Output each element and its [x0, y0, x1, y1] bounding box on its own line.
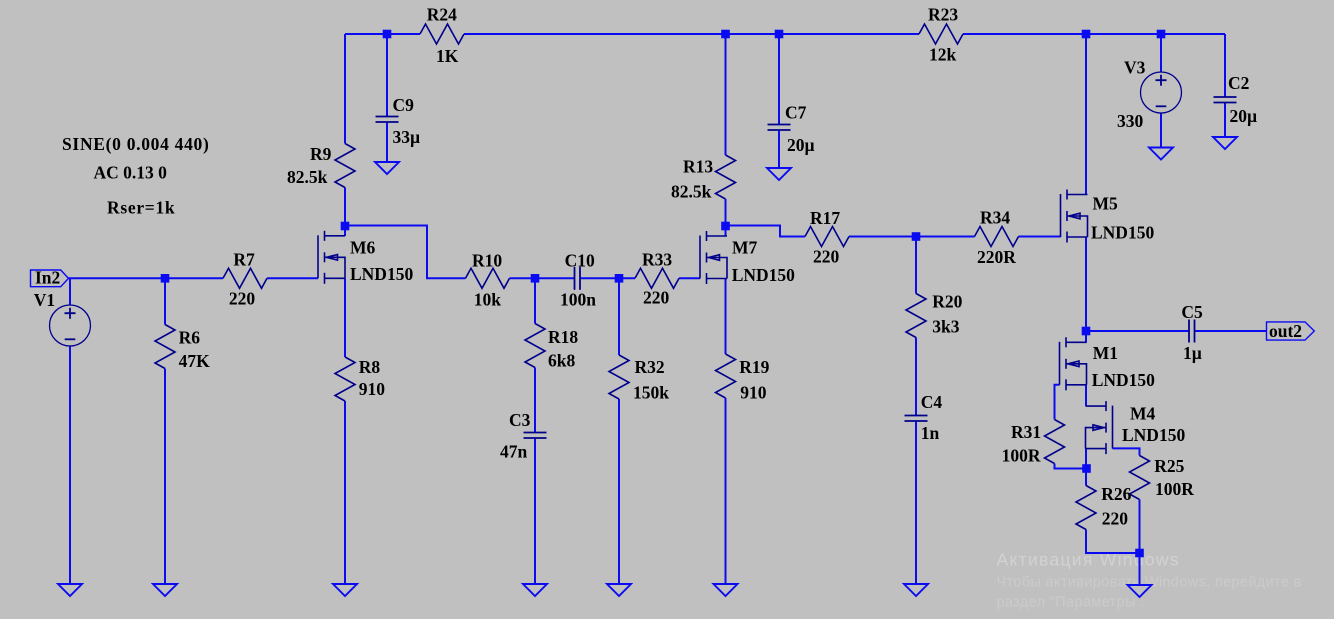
svg-text:R19: R19	[739, 357, 769, 377]
svg-text:In2: In2	[35, 268, 60, 288]
svg-text:C10: C10	[565, 250, 595, 270]
svg-text:1n: 1n	[921, 423, 940, 443]
svg-text:R18: R18	[548, 327, 578, 347]
svg-text:раздел "Параметры .: раздел "Параметры .	[997, 595, 1145, 611]
svg-text:R26: R26	[1101, 484, 1131, 504]
svg-text:100n: 100n	[560, 289, 596, 309]
svg-text:R17: R17	[810, 208, 840, 228]
svg-text:6k8: 6k8	[548, 350, 575, 370]
svg-text:220R: 220R	[977, 247, 1016, 267]
svg-text:C5: C5	[1181, 302, 1203, 322]
svg-text:R25: R25	[1154, 456, 1184, 476]
svg-text:47K: 47K	[179, 351, 211, 371]
svg-text:SINE(0 0.004 440): SINE(0 0.004 440)	[62, 134, 210, 154]
svg-text:C4: C4	[921, 392, 943, 412]
svg-text:R6: R6	[179, 327, 201, 347]
svg-text:M5: M5	[1093, 193, 1119, 213]
svg-text:R32: R32	[635, 357, 665, 377]
svg-text:220: 220	[643, 287, 670, 307]
svg-text:LND150: LND150	[350, 264, 413, 284]
svg-text:150k: 150k	[633, 382, 669, 402]
svg-text:R24: R24	[427, 4, 457, 24]
svg-text:1K: 1K	[436, 46, 459, 66]
svg-text:AC 0.13 0: AC 0.13 0	[94, 162, 168, 182]
svg-text:out2: out2	[1269, 321, 1302, 341]
svg-text:LND150: LND150	[1092, 370, 1155, 390]
svg-text:R31: R31	[1011, 422, 1041, 442]
svg-text:C3: C3	[509, 410, 531, 430]
svg-text:LND150: LND150	[1091, 222, 1154, 242]
svg-text:1µ: 1µ	[1183, 343, 1202, 363]
svg-text:R10: R10	[472, 250, 502, 270]
svg-text:C7: C7	[785, 102, 807, 122]
svg-text:M1: M1	[1093, 343, 1118, 363]
svg-text:12k: 12k	[929, 44, 957, 64]
svg-text:100R: 100R	[1155, 479, 1194, 499]
svg-text:M4: M4	[1130, 403, 1156, 423]
svg-text:82.5k: 82.5k	[287, 167, 328, 187]
svg-text:V1: V1	[34, 290, 55, 310]
svg-text:LND150: LND150	[1122, 425, 1185, 445]
svg-text:910: 910	[740, 382, 767, 402]
svg-text:M6: M6	[350, 237, 376, 257]
svg-text:220: 220	[1102, 508, 1129, 528]
svg-text:Rser=1k: Rser=1k	[107, 197, 175, 217]
svg-text:3k3: 3k3	[932, 316, 959, 336]
svg-text:C2: C2	[1228, 73, 1249, 93]
svg-text:R33: R33	[642, 249, 672, 269]
svg-text:R23: R23	[928, 4, 958, 24]
svg-text:47n: 47n	[500, 441, 528, 461]
svg-text:330: 330	[1117, 111, 1144, 131]
svg-text:82.5k: 82.5k	[671, 181, 712, 201]
svg-text:R13: R13	[683, 156, 713, 176]
svg-text:20µ: 20µ	[787, 135, 815, 155]
svg-text:33µ: 33µ	[393, 127, 421, 147]
svg-text:R7: R7	[233, 249, 255, 269]
svg-text:220: 220	[229, 288, 256, 308]
svg-text:V3: V3	[1124, 57, 1146, 77]
svg-text:R20: R20	[932, 291, 962, 311]
svg-text:910: 910	[359, 379, 386, 399]
svg-text:R8: R8	[359, 357, 381, 377]
svg-text:LND150: LND150	[732, 265, 795, 285]
svg-text:20µ: 20µ	[1230, 106, 1258, 126]
svg-text:R34: R34	[980, 207, 1010, 227]
svg-text:220: 220	[813, 246, 840, 266]
svg-text:R9: R9	[310, 144, 332, 164]
svg-text:C9: C9	[393, 95, 415, 115]
svg-text:10k: 10k	[474, 289, 502, 309]
svg-text:100R: 100R	[1002, 445, 1041, 465]
svg-text:M7: M7	[732, 237, 758, 257]
